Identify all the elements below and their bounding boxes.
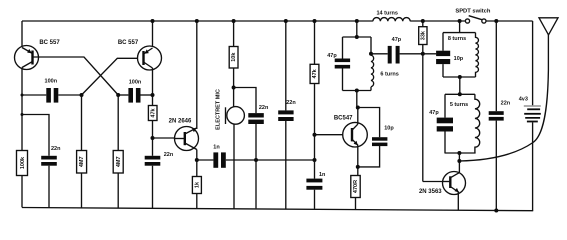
svg-text:BC547: BC547 xyxy=(334,116,353,122)
transistor Q1 emitter diagonal xyxy=(22,48,33,54)
capacitor 47p (link) plates xyxy=(388,46,392,64)
svg-text:BC 557: BC 557 xyxy=(118,40,139,46)
node 22n decoupling rail junction xyxy=(284,19,288,23)
svg-text:47k: 47k xyxy=(312,68,318,78)
node C2 / Q1 base / 4M7 junction xyxy=(116,93,120,97)
node tank3 bottom tap xyxy=(457,151,461,155)
svg-text:1k: 1k xyxy=(194,181,200,188)
inductor 8 turns coil xyxy=(476,33,479,77)
capacitor 22n (left) plates xyxy=(41,156,57,160)
resistor 47k (bias) xyxy=(310,64,319,83)
node Q1 collector / 22n branch junction xyxy=(21,113,24,116)
wire tank3 left branch upper xyxy=(444,94,446,117)
wire 22n (UJT) to ground xyxy=(152,166,154,209)
wire Q4 emitter to ground xyxy=(457,192,459,210)
node 22n rail junction xyxy=(494,19,498,23)
node mic / 22n branch junction xyxy=(232,86,236,90)
transistor Q1 collector diagonal xyxy=(22,62,33,68)
svg-text:4v3: 4v3 xyxy=(519,97,528,103)
wire tank3 top xyxy=(445,93,475,95)
capacitor 22n (UJT) plates xyxy=(145,156,161,160)
node 33k / 47p junction xyxy=(421,52,425,56)
svg-text:33k: 33k xyxy=(420,30,426,40)
transistor 2N2646 lower diagonal xyxy=(185,143,197,150)
svg-text:47p: 47p xyxy=(327,53,337,59)
svg-text:SPDT switch: SPDT switch xyxy=(455,8,491,14)
capacitor 10p (feedback) plates xyxy=(372,137,387,141)
wire signal line to BC547 column xyxy=(226,159,315,161)
transistor Q1 emitter arrow (PNP) xyxy=(27,49,32,53)
wire tank1 tap from rail xyxy=(356,21,358,37)
node BC547 base junction xyxy=(313,133,317,137)
transistor Q3 base bar xyxy=(351,128,353,141)
wire 1n base cap to ground xyxy=(314,190,316,209)
wire 22n RF decoupling from rail xyxy=(495,21,497,111)
wire tank1 left branch lower xyxy=(342,69,344,91)
wire bottom ground rail xyxy=(22,208,533,211)
transistor Q3 collector diagonal xyxy=(352,124,358,130)
wire 10k from rail xyxy=(233,21,235,47)
wire junction to 2N2646 base xyxy=(153,137,176,139)
wire Q3 collector up xyxy=(357,108,359,125)
node 10k rail junction xyxy=(232,19,236,23)
resistor 47k (left) xyxy=(148,106,157,121)
wire tank1 left branch upper xyxy=(342,37,344,59)
wire 4M7 a to ground xyxy=(81,173,83,208)
capacitor C2 100n right lead xyxy=(141,94,153,96)
node antenna tap junction xyxy=(457,159,461,163)
wire 22n coupling to signal line and ground xyxy=(255,124,257,208)
antenna symbol xyxy=(539,18,558,35)
svg-text:2N 3563: 2N 3563 xyxy=(419,189,442,195)
transistor Q2 collector diagonal xyxy=(144,62,153,68)
wire mic node to 22n coupling cap xyxy=(234,88,256,114)
capacitor 1n (osc) plates xyxy=(213,152,218,167)
node 22n coupling / signal junction xyxy=(254,158,258,162)
wire 22n (left) to ground xyxy=(48,166,50,208)
wire 2N2646 lower lead down xyxy=(196,150,198,177)
wire 470R to ground xyxy=(355,198,357,210)
resistor 33k xyxy=(419,27,427,45)
svg-text:ELECTRET MIC: ELECTRET MIC xyxy=(216,89,222,130)
wire 4M7 a down xyxy=(81,95,83,151)
svg-text:6 turns: 6 turns xyxy=(380,72,398,78)
transistor 2N2646 upper diagonal with arrow xyxy=(185,128,197,134)
capacitor 10p feedback loop wires xyxy=(358,108,380,138)
svg-text:10k: 10k xyxy=(231,52,237,62)
wire battery bottom lead xyxy=(532,122,534,210)
wire Q3 emitter down xyxy=(357,145,359,175)
wire top rail coil to switch xyxy=(410,20,465,22)
wire tank1 right branch bottom xyxy=(370,87,372,91)
wire 10k to mic xyxy=(233,68,235,107)
svg-text:47k: 47k xyxy=(150,107,156,117)
resistor 470R xyxy=(351,176,360,198)
capacitor 47p (link) right lead xyxy=(400,53,437,55)
wire top supply rail left segment xyxy=(22,20,373,22)
svg-text:47p: 47p xyxy=(429,110,439,116)
svg-text:10p: 10p xyxy=(454,56,464,62)
svg-text:100n: 100n xyxy=(45,79,58,85)
capacitor 22n (RF) plates xyxy=(489,111,504,115)
svg-text:22n: 22n xyxy=(286,100,296,106)
wire 47k to base node and down to 1n xyxy=(314,84,316,179)
switch contact right xyxy=(482,19,486,23)
resistor 4M7 a xyxy=(77,151,87,174)
wire 4M7 b to ground xyxy=(117,173,119,208)
svg-text:10p: 10p xyxy=(384,125,394,131)
node tank2 rail junction xyxy=(458,19,462,23)
wire Q1 base to cross coupling xyxy=(33,57,118,95)
capacitor 22n (decoupling) plates xyxy=(278,110,293,114)
svg-text:22n: 22n xyxy=(259,105,269,111)
transistor Q2 BC557 body xyxy=(138,46,162,70)
svg-text:2N 2646: 2N 2646 xyxy=(169,118,192,124)
node 47k / base / 22n junction xyxy=(151,136,155,140)
node Q3 emitter / 10p junction xyxy=(356,165,360,169)
wire tank3 tap down to 2N3563 collector xyxy=(458,153,460,173)
battery 4v3 plates xyxy=(524,105,541,106)
transistor Q4 emitter diagonal with arrow xyxy=(450,187,459,193)
transistor Q2 base bar xyxy=(142,51,144,65)
transistor Q1 BC557 emitter lead from rail xyxy=(21,21,23,48)
wire 4M7 b down xyxy=(117,95,119,151)
transistor Q2 emitter diagonal xyxy=(144,48,153,54)
node Q2 emitter rail junction xyxy=(151,19,155,23)
capacitor C1 100n left lead xyxy=(22,94,46,96)
wire top rail after switch to battery corner xyxy=(486,20,533,22)
node 47k rail junction xyxy=(313,19,317,23)
svg-text:4M7: 4M7 xyxy=(79,156,85,167)
wire 22n decoupling from rail xyxy=(285,21,287,110)
svg-text:100k: 100k xyxy=(20,156,26,169)
svg-text:22n: 22n xyxy=(51,146,61,152)
switch lever xyxy=(469,16,483,20)
wire tank2 top xyxy=(443,32,476,34)
transistor 2N2646 base lead xyxy=(175,138,185,140)
capacitor 1n (osc) left lead xyxy=(197,159,214,161)
resistor 33k lead from rail xyxy=(422,21,424,27)
wire base node to BC547 xyxy=(315,134,344,136)
wire 47k bias from rail xyxy=(314,21,316,64)
wire 1k to ground xyxy=(196,194,198,209)
wire tank2 bottom xyxy=(443,76,476,78)
capacitor C1 100n plates xyxy=(46,88,51,103)
capacitor C2 100n plates xyxy=(128,88,133,103)
electret mic diaphragm bar xyxy=(225,107,227,124)
node tank1 top junction xyxy=(355,35,359,39)
wire inter-tank link xyxy=(459,77,461,94)
transistor 2N2646 base bar xyxy=(184,132,186,145)
wire tank1 right branch top xyxy=(370,37,372,55)
transistor 2N2646 body xyxy=(175,127,199,151)
wire 22n RF to ground xyxy=(495,121,497,211)
wire mic bottom to ground xyxy=(233,124,235,209)
transistor Q4 collector diagonal xyxy=(450,173,459,178)
node 1n tap junction xyxy=(195,158,199,162)
svg-text:22n: 22n xyxy=(501,100,511,106)
svg-text:BC 557: BC 557 xyxy=(39,40,60,46)
transistor Q3 BC547 body xyxy=(343,122,368,147)
capacitor 22n (coupling) plates xyxy=(248,113,263,117)
wire tank2 left branch lower xyxy=(442,64,444,77)
node Q3 collector junction xyxy=(356,106,360,110)
node 33k rail junction xyxy=(421,19,425,23)
svg-text:100n: 100n xyxy=(129,79,142,85)
svg-text:5 turns: 5 turns xyxy=(450,102,468,108)
node Q2 collector / C2 junction xyxy=(151,93,155,97)
resistor 4M7 b xyxy=(113,151,123,174)
transistor Q4 2N3563 body xyxy=(443,172,466,195)
wire Q2 collector down xyxy=(152,68,154,106)
wire 2N2646 upper lead to rail xyxy=(196,21,198,129)
electret mic body xyxy=(227,107,245,125)
node tank3 top tap xyxy=(458,92,462,96)
wire tank2 tap from rail xyxy=(459,21,461,33)
capacitor C2 100n left lead xyxy=(118,94,128,96)
svg-text:470R: 470R xyxy=(353,180,359,193)
transistor Q4 base lead inside xyxy=(443,181,450,183)
wire battery top lead xyxy=(532,21,534,105)
wire Q2 base to cross coupling xyxy=(82,58,144,95)
transistor Q1 base bar xyxy=(31,51,33,65)
node tank1 bottom junction xyxy=(355,89,359,93)
wire 100k to ground rail xyxy=(21,176,23,208)
capacitor C1 100n right lead xyxy=(58,94,81,96)
inductor 5 turns coil xyxy=(475,94,480,153)
wire tank2 left branch upper xyxy=(442,33,444,51)
svg-text:1n: 1n xyxy=(319,172,326,178)
svg-text:22n: 22n xyxy=(164,152,174,158)
node signal / base column junction xyxy=(313,158,317,162)
transistor Q1 BC557 body xyxy=(15,46,39,70)
svg-text:1n: 1n xyxy=(213,145,220,151)
svg-text:4M7: 4M7 xyxy=(116,156,122,167)
node tank1 rail junction xyxy=(355,19,359,23)
svg-text:47p: 47p xyxy=(392,37,402,43)
transistor Q2 emitter arrow (PNP) xyxy=(144,49,149,53)
wire 47k to 22n junction xyxy=(152,121,154,156)
transistor Q3 emitter diagonal with arrow xyxy=(352,139,358,145)
wire tank1 bottom tap to Q3 collector xyxy=(356,91,358,108)
wire 33k down to 2N3563 base xyxy=(422,45,424,182)
capacitor 47p (tank1) plates xyxy=(335,59,350,63)
wire tank3 left branch lower xyxy=(444,132,446,154)
capacitor 47p (link) left lead xyxy=(371,53,388,55)
capacitor 10p (tank2) plates xyxy=(436,51,450,56)
wire 22n decoupling to ground xyxy=(285,121,287,209)
inductor L1 14 turns on top rail xyxy=(373,18,410,22)
node C1 / Q2 base / 4M7 junction xyxy=(80,93,84,97)
resistor 100k xyxy=(17,151,28,176)
capacitor 47p (tank3) plates xyxy=(437,118,453,124)
resistor 10k xyxy=(229,47,238,69)
wire tank1 bottom xyxy=(343,90,372,92)
wire tank3 bottom xyxy=(445,152,476,154)
node 22n ground junction xyxy=(494,209,498,213)
node 2N2646 rail junction xyxy=(195,19,199,23)
resistor 1k xyxy=(192,177,201,194)
wire Q1 collector down left column xyxy=(21,68,23,151)
capacitor 1n (base) plates xyxy=(306,179,322,183)
wire tank1 top xyxy=(343,36,372,38)
node 47p link tap on tank1 xyxy=(369,52,373,56)
svg-text:8 turns: 8 turns xyxy=(448,36,466,42)
svg-text:14 turns: 14 turns xyxy=(376,11,397,17)
wire antenna curve xyxy=(459,18,548,161)
node Q1 collector / C1 junction xyxy=(21,94,24,97)
node tank2 bottom tap xyxy=(458,75,462,79)
transistor Q4 base bar xyxy=(449,176,451,188)
transistor Q2 BC557 emitter lead from rail xyxy=(152,21,154,48)
inductor 6 turns xyxy=(371,55,374,87)
switch contact left xyxy=(465,19,469,23)
wire 22n branch from Q1 collector xyxy=(22,115,49,156)
wire base lead to 2N3563 xyxy=(423,181,443,183)
